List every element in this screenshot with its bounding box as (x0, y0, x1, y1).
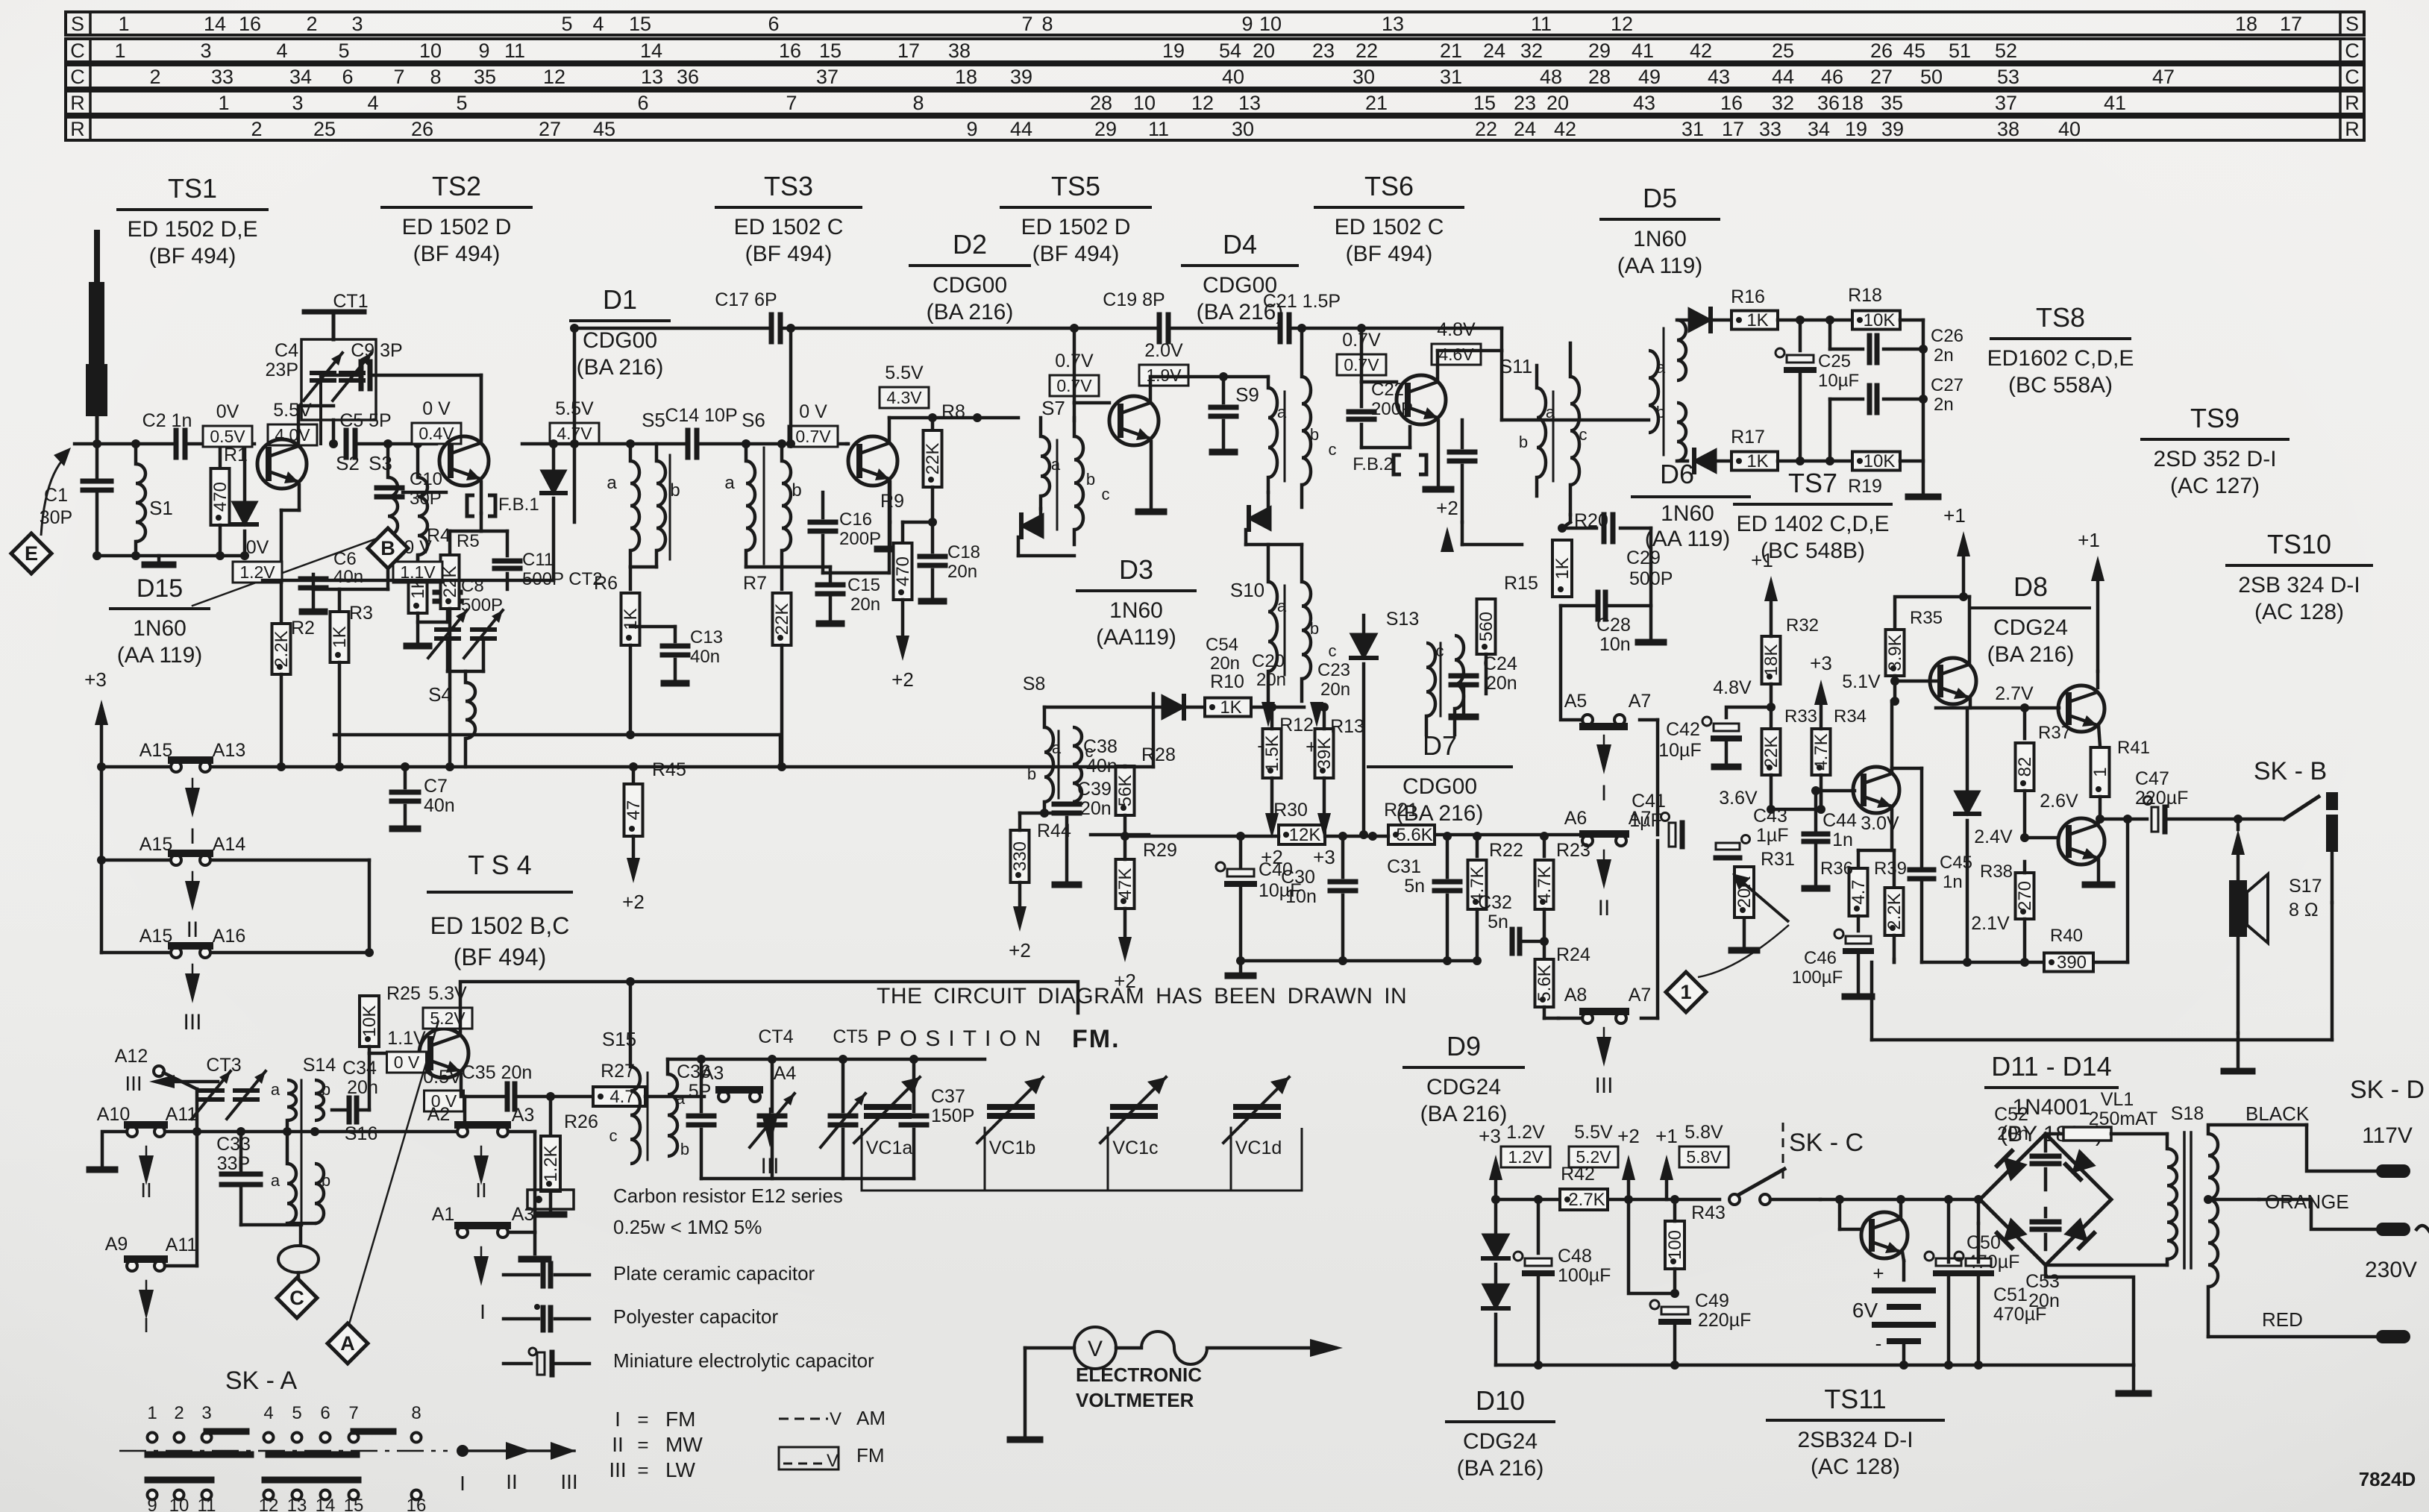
svg-text:a: a (607, 473, 617, 493)
svg-text:13: 13 (1382, 13, 1404, 35)
svg-text:D11 - D14: D11 - D14 (1991, 1051, 2111, 1082)
svg-text:I: I (143, 1314, 149, 1337)
band arrow III below A4 (760, 1108, 779, 1179)
capacitor C2 (142, 410, 192, 457)
diode D5 label (1601, 183, 1719, 278)
svg-text:46: 46 (1821, 66, 1843, 88)
switch bank SK-A top row (147, 1403, 421, 1443)
svg-text:III: III (1594, 1073, 1613, 1098)
svg-text:D5: D5 (1643, 183, 1677, 213)
svg-text:2SB 324 D-I: 2SB 324 D-I (2238, 573, 2360, 597)
svg-text:C39: C39 (1077, 779, 1112, 800)
resistor R23 (1535, 836, 1590, 941)
wire TS5 base (1070, 324, 1109, 421)
svg-text:Polyester capacitor: Polyester capacitor (613, 1305, 778, 1328)
svg-text:10n: 10n (1599, 634, 1631, 655)
capacitor C39 (1054, 779, 1112, 885)
transformer S16 area (271, 1080, 377, 1223)
transistor TS5 label (1001, 171, 1150, 266)
resistor R21 (1384, 800, 1435, 845)
svg-text:R: R (2345, 118, 2360, 140)
svg-text:6: 6 (320, 1403, 330, 1423)
tuning gang VC1a (854, 1077, 920, 1158)
svg-text:29: 29 (1588, 40, 1611, 62)
svg-text:39: 39 (1010, 66, 1032, 88)
svg-text:37: 37 (816, 66, 839, 88)
wire S8 row (0, 0, 1, 1)
svg-text:200P: 200P (1371, 399, 1413, 419)
svg-text:RED: RED (2262, 1308, 2303, 1331)
wire TS4 collector (460, 977, 1078, 1067)
supply +2 above R15 (1436, 497, 1458, 552)
svg-text:(BF 494): (BF 494) (149, 244, 236, 269)
potentiometer R31 (1731, 849, 1795, 950)
svg-text:VC1d: VC1d (1235, 1138, 1282, 1158)
switch bank SK-A actuator line (119, 1442, 576, 1460)
svg-text:b: b (792, 480, 801, 501)
resistor R29 (1115, 836, 1177, 962)
ferrite bead FB1 (467, 482, 539, 516)
wire A8 left (1558, 1017, 1582, 1020)
capacitor C44 (1804, 786, 1857, 888)
svg-text:R: R (2345, 92, 2360, 114)
svg-text:R9: R9 (880, 491, 904, 512)
svg-text:A2: A2 (427, 1104, 451, 1125)
node A diamond (327, 1323, 368, 1364)
svg-text:SK - C: SK - C (1789, 1129, 1864, 1157)
capacitor C53 (2025, 1208, 2060, 1311)
resistor R24 (1535, 941, 1590, 1018)
wire audio return rail (1872, 962, 2332, 1040)
svg-text:C1: C1 (44, 485, 68, 506)
voltage 4.8V at TS7 area (0, 0, 1, 1)
svg-text:7: 7 (1021, 13, 1032, 35)
wire ground rail TS1 (93, 551, 245, 565)
svg-text:0 V: 0 V (394, 1053, 420, 1072)
resistor R2 (272, 618, 315, 767)
svg-text:b: b (1310, 425, 1319, 444)
svg-text:R5: R5 (457, 531, 480, 551)
svg-text:27: 27 (1870, 66, 1893, 88)
svg-text:R6: R6 (594, 573, 618, 594)
svg-text:4.8V: 4.8V (1437, 319, 1476, 340)
svg-text:c: c (1579, 425, 1588, 444)
battery 6V (1852, 1262, 1933, 1365)
diode D9 label (1404, 1031, 1523, 1126)
svg-text:+2: +2 (1261, 846, 1283, 868)
svg-text:7824D: 7824D (2359, 1468, 2416, 1490)
svg-text:390: 390 (2057, 953, 2087, 973)
resistor R18 (1830, 285, 1923, 330)
capacitor C35 (462, 1062, 593, 1126)
svg-text:C: C (70, 40, 85, 62)
capacitor C25 (1775, 320, 1859, 461)
svg-text:A8: A8 (1564, 985, 1588, 1006)
transistor TS6 (1397, 375, 1446, 424)
switch A2 A3 (427, 1104, 535, 1137)
svg-text:ELECTRONIC: ELECTRONIC (1076, 1364, 1202, 1386)
svg-text:D6: D6 (1660, 459, 1694, 489)
svg-text:19: 19 (1845, 118, 1867, 140)
svg-text:S3: S3 (369, 452, 392, 474)
svg-text:I: I (480, 1300, 486, 1323)
svg-text:35: 35 (474, 66, 496, 88)
coil S2 (336, 444, 398, 589)
svg-text:2.1V: 2.1V (1971, 913, 2010, 934)
svg-text:4.6V: 4.6V (1438, 345, 1474, 364)
svg-text:1n: 1n (1832, 829, 1853, 850)
IF transformer S12 (1649, 320, 1686, 461)
resistor R37 (2015, 708, 2071, 842)
svg-text:CT3: CT3 (206, 1055, 241, 1076)
transistor TS3 label (716, 171, 861, 266)
svg-text:A15: A15 (140, 834, 172, 855)
svg-text:100µF: 100µF (1792, 967, 1843, 988)
svg-text:b: b (680, 1140, 689, 1158)
svg-text:26: 26 (1870, 40, 1893, 62)
voltage 2.4V (1974, 826, 2013, 847)
svg-text:220µF: 220µF (1698, 1310, 1751, 1331)
svg-text:D4: D4 (1223, 229, 1257, 260)
wire TS2 R45 rail (334, 730, 780, 767)
svg-text:C25: C25 (1818, 351, 1851, 371)
svg-text:10µF: 10µF (1658, 740, 1701, 761)
svg-text:47: 47 (624, 800, 644, 821)
svg-text:C38: C38 (1083, 736, 1118, 757)
svg-text:TS1: TS1 (168, 173, 217, 204)
diode D7 label (1368, 730, 1511, 826)
svg-text:TS3: TS3 (764, 171, 813, 201)
svg-text:II: II (475, 1179, 487, 1202)
svg-text:S11: S11 (1499, 355, 1532, 377)
svg-text:(BC 548B): (BC 548B) (1761, 539, 1865, 563)
wire TS3 emitter ground (877, 522, 903, 549)
svg-text:34: 34 (1808, 118, 1830, 140)
svg-text:b: b (1310, 619, 1319, 638)
coil S14 (287, 1055, 336, 1120)
svg-text:0.5V: 0.5V (423, 1067, 462, 1088)
svg-text:VC1c: VC1c (1112, 1138, 1158, 1158)
svg-text:R30: R30 (1273, 800, 1308, 821)
svg-text:2n: 2n (1934, 395, 1954, 415)
svg-text:II: II (506, 1470, 518, 1493)
svg-text:+2: +2 (622, 891, 645, 913)
diode D10 label (1447, 1385, 1554, 1481)
svg-text:50: 50 (1920, 66, 1943, 88)
capacitor C50 battery (1966, 1232, 2019, 1273)
svg-text:-: - (1875, 1332, 1882, 1355)
capacitor C14 (665, 405, 737, 457)
svg-text:C33: C33 (216, 1134, 251, 1155)
capacitor C51 symbol (1955, 1223, 2046, 1365)
svg-text:5.8V: 5.8V (1684, 1122, 1723, 1143)
wire D9 supply row (1491, 1195, 1720, 1204)
transformer S18 core (2171, 1103, 2204, 1268)
capacitor C30 (1281, 836, 1355, 961)
svg-text:R35: R35 (1910, 608, 1943, 628)
voltage 0.7V 0.7V at TS5 base (1050, 351, 1099, 396)
svg-text:+1: +1 (1943, 504, 1966, 527)
svg-text:R19: R19 (1848, 476, 1882, 497)
svg-text:(BF 494): (BF 494) (454, 944, 546, 970)
capacitor C32 (1478, 892, 1549, 953)
svg-text:33: 33 (211, 66, 234, 88)
switch A3 A4 right (701, 1063, 797, 1102)
wire A3 column right (508, 1132, 548, 1259)
svg-text:(BA 216): (BA 216) (1987, 642, 2075, 667)
IF transformer S10 (1230, 545, 1337, 701)
svg-text:150P: 150P (931, 1105, 974, 1126)
wire TS4 emitter (461, 1074, 465, 1097)
capacitor C8 (418, 576, 503, 622)
svg-text:3.9K: 3.9K (1885, 634, 1905, 671)
capacitor C7 (392, 767, 455, 829)
wire TS2 base line (356, 439, 436, 448)
svg-text:19: 19 (1162, 40, 1185, 62)
svg-text:47: 47 (2152, 66, 2175, 88)
svg-text:III: III (609, 1458, 626, 1481)
wire band bus II (97, 856, 369, 953)
svg-text:8: 8 (411, 1403, 421, 1423)
svg-text:8: 8 (912, 92, 924, 114)
svg-text:ED 1502 D: ED 1502 D (1021, 215, 1131, 239)
label BLACK (2245, 1102, 2310, 1125)
svg-text:A3: A3 (512, 1204, 535, 1225)
svg-text:5: 5 (456, 92, 467, 114)
voltage 4.8V 4.6V at TS6 (1432, 319, 1481, 365)
resistor R19 (1830, 451, 1923, 497)
svg-text:2n: 2n (1934, 345, 1954, 366)
svg-text:C4: C4 (275, 340, 298, 361)
svg-text:(AC 128): (AC 128) (2254, 600, 2344, 624)
row C numbers (capacitors 2) (149, 66, 2175, 88)
svg-text:15: 15 (819, 40, 841, 62)
svg-text:III: III (560, 1470, 577, 1493)
voltage 2.7V (1995, 683, 2034, 704)
resistor R42 (1560, 1164, 1608, 1210)
voltage 0V 1.2V near D15 (233, 537, 282, 583)
svg-text:18K: 18K (1761, 644, 1781, 677)
svg-text:11: 11 (198, 1496, 216, 1512)
svg-text:C31: C31 (1387, 856, 1421, 877)
svg-text:32: 32 (1520, 40, 1543, 62)
svg-text:49: 49 (1638, 66, 1661, 88)
transistor TS2 (439, 436, 489, 486)
svg-text:C47: C47 (2135, 768, 2169, 789)
capacitor C23 (1317, 660, 1350, 700)
switch A1 A3 lower (432, 1204, 535, 1237)
svg-text:10K: 10K (1864, 451, 1896, 471)
svg-text:41: 41 (2104, 92, 2126, 114)
transistor TS2 label (382, 171, 531, 266)
svg-text:R32: R32 (1786, 615, 1819, 636)
svg-text:C29: C29 (1626, 548, 1661, 568)
svg-text:5.5V: 5.5V (273, 400, 312, 421)
svg-text:23: 23 (1312, 40, 1335, 62)
svg-text:22K: 22K (772, 603, 792, 636)
oval and C diamond (278, 1225, 319, 1277)
svg-text:16: 16 (1720, 92, 1743, 114)
svg-text:21: 21 (1440, 40, 1462, 62)
svg-text:230V: 230V (2365, 1258, 2417, 1282)
capacitor C21 (1263, 291, 1341, 342)
svg-text:CDG24: CDG24 (1463, 1429, 1538, 1454)
svg-text:C19 8P: C19 8P (1103, 289, 1165, 310)
wire C51 top (1977, 1199, 1981, 1223)
svg-text:T S 4: T S 4 (468, 850, 531, 880)
wire TS3 emitter (888, 482, 892, 522)
voltage 5.5V 4.0V at TS1 collector (268, 400, 317, 445)
svg-text:14: 14 (316, 1496, 336, 1512)
wire jack return (2331, 903, 2334, 1040)
svg-text:18: 18 (955, 66, 977, 88)
row R numbers (resistors 2) (251, 118, 2081, 140)
svg-text:(AA 119): (AA 119) (117, 643, 203, 668)
svg-text:A11: A11 (166, 1235, 198, 1255)
svg-text:20n: 20n (1256, 670, 1286, 690)
svg-text:10: 10 (419, 40, 442, 62)
transistor TS5 (1109, 396, 1159, 445)
legend band II MW (612, 1433, 703, 1456)
voltage 0V 1.1V near R5 (393, 537, 442, 583)
svg-text:TS8: TS8 (2036, 302, 2085, 333)
svg-text:(BF 494): (BF 494) (1032, 242, 1120, 266)
wire A2 left to S16 (0, 0, 1, 1)
svg-text:6: 6 (637, 92, 648, 114)
svg-text:3: 3 (351, 13, 363, 35)
svg-text:17: 17 (1722, 118, 1744, 140)
svg-text:A15: A15 (140, 926, 172, 947)
svg-text:SK - A: SK - A (225, 1367, 298, 1395)
wire TS10 collector to output node (2096, 815, 2104, 825)
svg-text:24: 24 (1514, 118, 1536, 140)
capacitor below S11 (1449, 420, 1475, 522)
svg-text:S18: S18 (2171, 1103, 2204, 1124)
svg-text:0.7V: 0.7V (795, 427, 831, 446)
svg-text:12: 12 (259, 1496, 279, 1512)
svg-text:(BA 216): (BA 216) (927, 300, 1014, 324)
svg-text:A12: A12 (115, 1046, 148, 1067)
svg-text:33P: 33P (217, 1153, 250, 1174)
svg-text:R41: R41 (2117, 738, 2150, 758)
svg-text:10: 10 (1133, 92, 1156, 114)
supply arrow +2 below R9 (891, 636, 914, 691)
svg-text:A16: A16 (213, 926, 245, 947)
svg-text:+3: +3 (1479, 1125, 1501, 1147)
svg-text:A: A (340, 1332, 355, 1355)
svg-text:R21: R21 (1384, 800, 1418, 821)
svg-text:3.6V: 3.6V (1719, 788, 1758, 809)
switch bank SK-A bottom row (148, 1490, 421, 1500)
svg-text:C9 3P: C9 3P (351, 340, 402, 361)
svg-text:1: 1 (2090, 767, 2110, 777)
supply arrow +3 right (0, 0, 1, 1)
svg-text:1.1V: 1.1V (387, 1028, 426, 1049)
svg-text:20n: 20n (947, 562, 977, 582)
svg-text:+3: +3 (1810, 652, 1832, 674)
resistor R6 (594, 567, 641, 735)
svg-text:C7: C7 (424, 776, 448, 797)
supply +3 below R13 (1313, 846, 1335, 868)
svg-text:470: 470 (210, 482, 231, 512)
svg-text:R25: R25 (386, 983, 421, 1004)
svg-text:5n: 5n (1404, 876, 1425, 897)
svg-text:13: 13 (1238, 92, 1261, 114)
IF transformer S9 (1235, 324, 1336, 507)
switch A5 A7 (1564, 691, 1652, 727)
svg-text:=: = (637, 1408, 648, 1431)
svg-text:b: b (1519, 433, 1528, 451)
band arrow III left (125, 1072, 218, 1095)
legend resistor range (613, 1216, 762, 1238)
svg-text:C17 6P: C17 6P (715, 289, 777, 310)
svg-text:2SB324 D-I: 2SB324 D-I (1797, 1428, 1913, 1452)
svg-text:5.5V: 5.5V (1574, 1122, 1613, 1143)
svg-text:24: 24 (1483, 40, 1505, 62)
wire TS5 collector (1150, 377, 1268, 400)
resistor R9 (880, 491, 937, 634)
transformer S18 primary (2167, 1134, 2177, 1265)
svg-text:C43: C43 (1753, 806, 1787, 826)
wire bus to volume line (0, 0, 1, 1)
band arrow II below A6 (1596, 850, 1611, 920)
switch bank SK-A top bars (148, 1452, 357, 1458)
band arrow I (185, 779, 200, 849)
svg-text:AM: AM (856, 1407, 886, 1429)
svg-text:45: 45 (593, 118, 615, 140)
svg-text:A7: A7 (1629, 691, 1652, 712)
svg-text:TS5: TS5 (1051, 171, 1100, 201)
capacitor C37 (901, 1059, 974, 1179)
svg-text:1N60: 1N60 (1633, 227, 1687, 251)
svg-text:32: 32 (1772, 92, 1794, 114)
wire TS3 base vertical from top line (786, 324, 848, 448)
svg-text:38: 38 (1997, 118, 2019, 140)
diode D8 label (1972, 571, 2090, 667)
ferrite bead FB2 (1353, 454, 1426, 474)
switch bank SK-A bottom bars (148, 1477, 358, 1484)
wire S12 input (1502, 418, 1649, 422)
voltage 5.5V 4.7V right of TS2 (550, 398, 599, 444)
transistor TS7 symbol (1853, 767, 1899, 813)
transistor TS10 label (2227, 529, 2372, 624)
wire TS10 base (2025, 836, 2058, 840)
svg-text:330: 330 (1010, 841, 1030, 871)
svg-text:27: 27 (539, 118, 561, 140)
svg-text:R18: R18 (1848, 285, 1882, 306)
svg-text:I: I (615, 1408, 621, 1431)
legend plate ceramic capacitor (504, 1262, 815, 1286)
svg-text:I: I (460, 1472, 466, 1495)
svg-text:D3: D3 (1119, 554, 1153, 585)
diode D9 symbol (1483, 1199, 1508, 1365)
svg-text:C37: C37 (931, 1086, 965, 1107)
svg-text:23P: 23P (266, 360, 298, 380)
sheet number 7824D (2359, 1468, 2416, 1490)
svg-text:220µF: 220µF (2135, 788, 2188, 809)
svg-text:8: 8 (430, 66, 441, 88)
svg-text:C53: C53 (2025, 1271, 2060, 1292)
svg-text:VC1b: VC1b (989, 1138, 1036, 1158)
resistor R5 (440, 513, 481, 767)
svg-text:10K: 10K (1864, 310, 1896, 330)
capacitor C38 (1083, 736, 1118, 777)
capacitor C54 C20 labels (1206, 635, 1286, 690)
svg-text:9: 9 (1241, 13, 1253, 35)
svg-text:41: 41 (1632, 40, 1654, 62)
svg-text:II: II (187, 917, 199, 942)
svg-text:0.25w < 1MΩ 5%: 0.25w < 1MΩ 5% (613, 1216, 762, 1238)
